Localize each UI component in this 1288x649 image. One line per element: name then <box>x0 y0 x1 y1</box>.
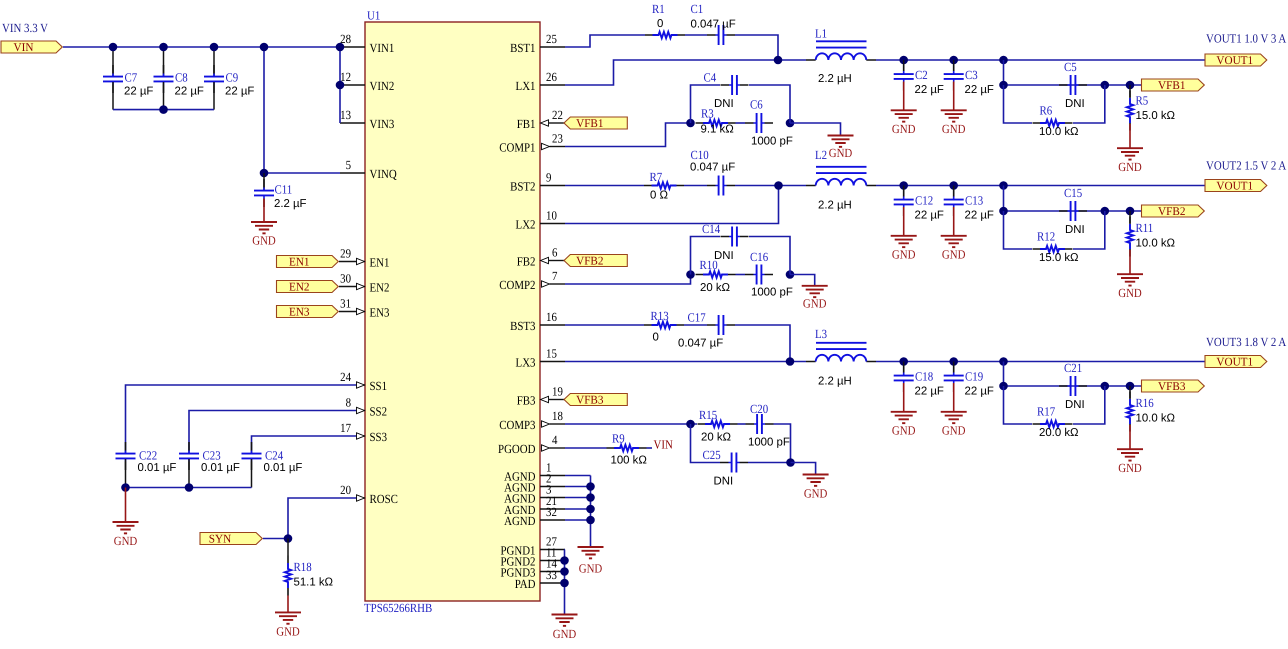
svg-text:22 µF: 22 µF <box>965 84 994 96</box>
svg-text:LX1: LX1 <box>516 79 536 93</box>
capacitor C19 22 uF <box>944 362 994 412</box>
wire SYN to junction <box>263 538 288 540</box>
svg-text:VOUT2 1.5 V 2 A: VOUT2 1.5 V 2 A <box>1206 159 1286 173</box>
svg-text:SS1: SS1 <box>370 379 388 393</box>
svg-text:0.01 µF: 0.01 µF <box>264 462 303 474</box>
wire L2 to VOUT flag <box>876 185 1205 187</box>
svg-text:10.0 kΩ: 10.0 kΩ <box>1136 413 1176 425</box>
wire <box>339 311 356 313</box>
svg-text:EN3: EN3 <box>370 305 390 319</box>
svg-text:VFB1: VFB1 <box>1158 78 1186 92</box>
svg-text:R9: R9 <box>612 432 625 446</box>
ground <box>891 236 917 262</box>
junction <box>899 56 908 65</box>
capacitor C15 DNI <box>1059 186 1087 236</box>
svg-text:29: 29 <box>340 247 351 261</box>
svg-text:VIN3: VIN3 <box>370 117 395 131</box>
pin 4 PGOOD <box>498 433 565 456</box>
ground for R11 <box>1117 274 1143 300</box>
svg-text:2.2 µH: 2.2 µH <box>818 200 852 212</box>
wire R1 to C1 <box>685 34 707 36</box>
svg-text:19: 19 <box>552 385 563 399</box>
svg-text:C3: C3 <box>965 68 978 82</box>
wire C1 to LX node <box>735 35 778 60</box>
wire C17 to LX3 node <box>735 325 790 362</box>
junction <box>586 505 595 514</box>
svg-text:GND: GND <box>1118 461 1142 475</box>
ground for R18 <box>275 612 301 638</box>
junction <box>284 534 293 543</box>
capacitor C20 1000 pF <box>746 402 790 449</box>
svg-text:R15: R15 <box>699 408 717 422</box>
pin 15 LX3 <box>516 347 565 370</box>
svg-text:C20: C20 <box>750 402 768 416</box>
svg-text:R13: R13 <box>651 309 669 323</box>
svg-text:C17: C17 <box>688 311 706 325</box>
net flag EN3 <box>277 305 339 319</box>
resistor R16 10.0 kOhm <box>1127 386 1176 449</box>
junction <box>949 181 958 190</box>
wire COMP1 <box>565 123 691 147</box>
svg-text:DNI: DNI <box>714 98 734 110</box>
svg-text:EN3: EN3 <box>289 305 310 319</box>
wire to ground <box>790 123 841 135</box>
pin 9 BST2 <box>510 171 565 194</box>
capacitor C7 22 uF <box>103 47 153 110</box>
junction <box>560 567 569 576</box>
resistor R11 10.0 kOhm <box>1127 211 1176 274</box>
svg-text:15: 15 <box>546 347 557 361</box>
svg-text:22 µF: 22 µF <box>124 86 153 98</box>
svg-text:GND: GND <box>942 248 966 262</box>
junction <box>185 483 194 492</box>
resistor R12 15.0 kOhm loop <box>1004 211 1105 264</box>
pin 17 SS3 <box>340 421 387 444</box>
wire SS1 <box>126 385 357 450</box>
pin 3 AGND <box>504 483 565 506</box>
svg-text:C15: C15 <box>1064 186 1082 200</box>
ground <box>941 236 967 262</box>
resistor R9 100 kOhm <box>607 432 648 467</box>
svg-text:20.0 kΩ: 20.0 kΩ <box>1039 427 1079 439</box>
ground for AGND <box>578 547 604 576</box>
svg-text:R6: R6 <box>1040 104 1053 118</box>
inductor L3 2.2 uH <box>806 327 876 388</box>
svg-text:0.047 µF: 0.047 µF <box>678 338 723 350</box>
ground for C11 <box>251 222 277 248</box>
pin 24 SS1 <box>340 370 387 393</box>
svg-text:GND: GND <box>252 234 276 248</box>
resistor R7 0 Ohm <box>644 170 684 202</box>
svg-text:22 µF: 22 µF <box>225 86 254 98</box>
ground <box>941 110 967 136</box>
capacitor C4 DNI loop <box>691 71 791 124</box>
svg-text:GND: GND <box>553 627 577 641</box>
svg-text:2.2 µH: 2.2 µH <box>818 73 852 85</box>
svg-text:C4: C4 <box>704 71 717 85</box>
pin 10 LX2 <box>516 209 565 232</box>
junction <box>774 181 783 190</box>
junction <box>560 556 569 565</box>
svg-text:R11: R11 <box>1136 221 1154 235</box>
svg-text:30: 30 <box>340 272 351 286</box>
pin 7 COMP2 <box>499 269 565 292</box>
svg-text:C18: C18 <box>915 370 933 384</box>
net flag VFB1 output <box>1142 78 1205 92</box>
wire FB3 row <box>1004 385 1142 387</box>
svg-text:DNI: DNI <box>1065 399 1085 411</box>
svg-text:GND: GND <box>114 534 138 548</box>
junction <box>336 81 345 90</box>
svg-text:DNI: DNI <box>714 476 734 488</box>
svg-text:GND: GND <box>942 122 966 136</box>
capacitor C18 22 uF <box>894 362 944 412</box>
wire VIN2/VIN3 branch <box>339 47 341 123</box>
wire VOUT2 feedback branch <box>1003 186 1005 212</box>
ground for C16 <box>802 286 828 311</box>
svg-text:0.047 µF: 0.047 µF <box>690 162 735 174</box>
wire SS2 <box>189 411 356 451</box>
svg-text:VIN: VIN <box>654 438 673 452</box>
pin 31 EN3 <box>340 297 389 320</box>
pin 11 PGND2 <box>500 546 565 569</box>
junction <box>586 482 595 491</box>
net flag VOUT1 <box>1205 53 1267 67</box>
capacitor C6 1000 pF <box>745 98 793 148</box>
pin 19 FB3 <box>517 385 563 408</box>
junction <box>1126 81 1135 90</box>
svg-text:R16: R16 <box>1136 396 1154 410</box>
junction <box>159 43 168 52</box>
junction <box>999 207 1008 216</box>
svg-text:22 µF: 22 µF <box>915 84 944 96</box>
svg-text:20 kΩ: 20 kΩ <box>700 282 731 294</box>
capacitor C3 22 uF <box>944 60 994 110</box>
junction <box>786 119 795 128</box>
svg-text:TPS65266RHB: TPS65266RHB <box>364 601 432 615</box>
svg-text:GND: GND <box>803 297 827 311</box>
net flag VOUT1 row3 <box>1205 355 1267 369</box>
wire VINQ horizontal <box>264 172 340 174</box>
svg-text:16: 16 <box>546 310 557 324</box>
svg-text:2.2 µH: 2.2 µH <box>818 376 852 388</box>
capacitor C24 0.01 uF <box>242 442 303 488</box>
junction <box>560 579 569 588</box>
svg-text:C21: C21 <box>1064 361 1082 375</box>
junction <box>949 357 958 366</box>
net flag VOUT1 row2 <box>1205 179 1267 193</box>
svg-text:10: 10 <box>546 209 557 223</box>
junction <box>686 119 695 128</box>
svg-text:COMP2: COMP2 <box>499 278 535 292</box>
capacitor C22 0.01 uF <box>116 442 177 488</box>
svg-text:C13: C13 <box>965 194 983 208</box>
wire C10 to LX2 node <box>735 185 806 187</box>
svg-text:10.0 kΩ: 10.0 kΩ <box>1039 126 1079 138</box>
wire COMP2 <box>565 275 691 285</box>
svg-text:22 µF: 22 µF <box>965 210 994 222</box>
svg-text:LX3: LX3 <box>516 355 536 369</box>
svg-text:6: 6 <box>552 246 557 260</box>
wire SS cap bottom bus <box>126 487 252 489</box>
svg-text:20 kΩ: 20 kΩ <box>701 432 732 444</box>
svg-text:GND: GND <box>942 424 966 438</box>
junction <box>786 270 795 279</box>
pin 29 EN1 <box>340 247 389 270</box>
svg-text:AGND: AGND <box>504 514 535 528</box>
junction <box>999 56 1008 65</box>
svg-text:9.1 kΩ: 9.1 kΩ <box>701 124 735 136</box>
svg-text:R17: R17 <box>1037 405 1055 419</box>
svg-text:EN2: EN2 <box>289 280 310 294</box>
svg-text:100 kΩ: 100 kΩ <box>611 455 648 467</box>
ground for SS caps <box>113 522 139 548</box>
net flag VFB3 output <box>1142 379 1205 393</box>
junction <box>336 43 345 52</box>
pin 16 BST3 <box>510 310 565 333</box>
wire ROSC <box>288 498 356 539</box>
capacitor C12 22 uF <box>894 186 944 236</box>
svg-text:22: 22 <box>552 108 563 122</box>
wire LX1 to inductor <box>565 60 806 85</box>
wire PGND bus <box>564 550 567 615</box>
ground <box>941 412 967 438</box>
wire L1 to VOUT1 flag <box>876 59 1205 61</box>
net flag VFB2 output <box>1142 204 1205 218</box>
svg-text:COMP1: COMP1 <box>499 140 535 154</box>
svg-text:GND: GND <box>276 625 300 639</box>
svg-text:51.1 kΩ: 51.1 kΩ <box>294 577 334 589</box>
junction <box>121 483 130 492</box>
junction <box>999 81 1008 90</box>
wire BST3 to R13 <box>565 324 644 326</box>
capacitor C11 2.2 uF <box>254 173 307 222</box>
svg-text:C1: C1 <box>691 2 704 16</box>
wire PGOOD to R9 <box>565 447 607 449</box>
svg-text:10.0 kΩ: 10.0 kΩ <box>1136 238 1176 250</box>
svg-text:COMP3: COMP3 <box>499 418 535 432</box>
svg-text:C23: C23 <box>203 449 221 463</box>
junction <box>260 169 269 178</box>
svg-text:2.2 µF: 2.2 µF <box>274 198 307 210</box>
svg-text:C10: C10 <box>691 148 709 162</box>
svg-text:DNI: DNI <box>1065 98 1085 110</box>
svg-text:FB3: FB3 <box>517 393 536 407</box>
junction <box>1126 207 1135 216</box>
junction <box>586 516 595 525</box>
svg-text:C9: C9 <box>226 71 239 85</box>
junction <box>774 56 783 65</box>
net flag VFB2 at FB2 pin <box>562 260 570 262</box>
svg-text:EN1: EN1 <box>289 255 310 269</box>
wire VIN bus <box>63 46 340 48</box>
wire R9 to VIN net <box>647 447 653 449</box>
svg-text:VIN1: VIN1 <box>370 41 395 55</box>
svg-text:22 µF: 22 µF <box>175 86 204 98</box>
wire VOUT1 feedback branch <box>1003 60 1005 85</box>
resistor R10 20 kOhm <box>696 258 736 294</box>
svg-text:33: 33 <box>546 568 557 582</box>
wire R13 to C17 <box>684 324 707 326</box>
svg-text:FB2: FB2 <box>517 254 536 268</box>
svg-text:C24: C24 <box>265 449 284 463</box>
capacitor C23 0.01 uF <box>179 442 240 488</box>
svg-text:R5: R5 <box>1136 94 1149 108</box>
junction <box>210 43 219 52</box>
resistor R15 20 kOhm <box>698 408 738 444</box>
junction <box>786 458 795 467</box>
wire R10 to C16 <box>736 274 746 276</box>
resistor R6 10.0 kOhm loop <box>1004 85 1105 138</box>
capacitor C21 DNI <box>1059 361 1087 411</box>
capacitor C1 0.047 uF <box>691 2 736 45</box>
svg-text:C22: C22 <box>139 449 157 463</box>
svg-text:8: 8 <box>346 396 351 410</box>
pin 26 LX1 <box>516 70 565 93</box>
capacitor C10 0.047 uF <box>690 148 735 196</box>
pin 22 FB1 <box>517 108 563 131</box>
svg-text:LX2: LX2 <box>516 217 536 231</box>
svg-text:DNI: DNI <box>714 250 734 262</box>
svg-text:26: 26 <box>546 70 557 84</box>
capacitor C17 0.047 uF <box>678 311 735 350</box>
svg-text:GND: GND <box>892 122 916 136</box>
pin 23 COMP1 <box>499 132 565 155</box>
svg-text:C16: C16 <box>750 250 768 264</box>
svg-text:GND: GND <box>579 562 603 576</box>
net flag VFB3 at FB3 pin <box>562 399 570 401</box>
resistor R17 20.0 kOhm loop <box>1004 386 1105 439</box>
inductor L1 2.2 uH <box>806 27 876 86</box>
net flag EN2 <box>277 280 339 294</box>
svg-text:20: 20 <box>340 483 351 497</box>
svg-text:C25: C25 <box>703 448 721 462</box>
capacitor C5 DNI <box>1059 60 1087 110</box>
junction <box>899 181 908 190</box>
capacitor C16 1000 pF <box>745 250 793 299</box>
svg-text:VOUT1: VOUT1 <box>1216 53 1253 67</box>
wire C20 down to C25 node <box>774 424 791 463</box>
svg-text:0: 0 <box>653 332 659 344</box>
svg-text:VFB1: VFB1 <box>576 116 604 130</box>
ground <box>891 110 917 136</box>
junction <box>1101 382 1110 391</box>
junction <box>999 181 1008 190</box>
svg-text:1000 pF: 1000 pF <box>751 136 793 148</box>
svg-text:DNI: DNI <box>1065 224 1085 236</box>
svg-text:0.047 µF: 0.047 µF <box>691 19 736 31</box>
pin 18 COMP3 <box>499 409 565 432</box>
svg-text:VOUT1: VOUT1 <box>1216 179 1253 193</box>
capacitor C2 22 uF <box>894 60 944 110</box>
svg-text:22 µF: 22 µF <box>915 210 944 222</box>
svg-text:VIN 3.3 V: VIN 3.3 V <box>2 21 48 35</box>
junction <box>686 420 695 429</box>
net flag EN1 <box>277 255 339 269</box>
svg-text:GND: GND <box>804 486 828 500</box>
svg-text:0.01 µF: 0.01 µF <box>201 462 240 474</box>
svg-text:GND: GND <box>829 146 853 160</box>
svg-text:C6: C6 <box>750 98 763 112</box>
svg-text:SS3: SS3 <box>370 430 388 444</box>
svg-text:22 µF: 22 µF <box>965 386 994 398</box>
junction <box>1101 207 1110 216</box>
wire AGND bus <box>565 476 591 548</box>
svg-text:VFB3: VFB3 <box>1158 379 1186 393</box>
resistor R1 0 <box>645 2 685 38</box>
wire <box>339 286 356 288</box>
svg-text:L1: L1 <box>815 27 827 41</box>
pin 33 PAD <box>515 568 565 591</box>
pin 1 AGND <box>504 461 565 484</box>
pin 28 VIN1 <box>340 32 394 55</box>
pin 5 VINQ <box>340 158 397 181</box>
pin 30 EN2 <box>340 272 389 295</box>
resistor R13 0 <box>644 309 684 344</box>
junction <box>1126 382 1135 391</box>
svg-text:15.0 kΩ: 15.0 kΩ <box>1039 252 1079 264</box>
capacitor C9 22 uF <box>204 47 254 110</box>
svg-text:ROSC: ROSC <box>370 492 398 506</box>
junction <box>1101 81 1110 90</box>
wire to ground <box>791 463 816 475</box>
junction <box>999 357 1008 366</box>
svg-text:R3: R3 <box>701 107 714 121</box>
svg-text:SS2: SS2 <box>370 404 388 418</box>
svg-text:PAD: PAD <box>515 577 536 591</box>
svg-text:C14: C14 <box>702 222 721 236</box>
pin 25 BST1 <box>510 32 565 55</box>
svg-text:BST1: BST1 <box>510 41 535 55</box>
svg-text:VFB2: VFB2 <box>1158 204 1186 218</box>
svg-text:GND: GND <box>892 248 916 262</box>
svg-text:0: 0 <box>657 18 663 30</box>
svg-text:23: 23 <box>552 132 563 146</box>
svg-text:EN1: EN1 <box>370 255 390 269</box>
svg-text:C2: C2 <box>915 68 928 82</box>
wire LX3 <box>565 361 806 363</box>
wire R7 to C10 <box>684 185 707 187</box>
svg-text:GND: GND <box>1118 286 1142 300</box>
wire BST1 to R1 <box>565 35 645 47</box>
svg-text:22 µF: 22 µF <box>915 386 944 398</box>
svg-text:R18: R18 <box>294 560 312 574</box>
svg-text:L3: L3 <box>815 327 827 341</box>
svg-text:VFB3: VFB3 <box>576 393 604 407</box>
inductor L2 2.2 uH <box>806 148 876 212</box>
svg-text:U1: U1 <box>367 9 380 23</box>
svg-text:C12: C12 <box>915 194 933 208</box>
pin 6 FB2 <box>517 246 562 269</box>
svg-text:7: 7 <box>552 269 557 283</box>
pin 2 AGND <box>504 472 565 495</box>
svg-text:13: 13 <box>340 108 351 122</box>
pin 14 PGND3 <box>500 557 565 580</box>
svg-text:0.01 µF: 0.01 µF <box>138 462 177 474</box>
junction <box>999 382 1008 391</box>
IC U1 TPS65266RHB body <box>364 9 540 616</box>
junction <box>586 493 595 502</box>
svg-text:VOUT3 1.8 V 2 A: VOUT3 1.8 V 2 A <box>1206 335 1286 349</box>
pin 13 VIN3 <box>340 108 394 131</box>
svg-text:C11: C11 <box>275 183 293 197</box>
junction <box>686 270 695 279</box>
svg-text:17: 17 <box>340 421 351 435</box>
svg-text:R12: R12 <box>1037 230 1055 244</box>
junction <box>899 357 908 366</box>
wire COMP3 <box>565 423 697 425</box>
svg-text:C5: C5 <box>1064 60 1077 74</box>
